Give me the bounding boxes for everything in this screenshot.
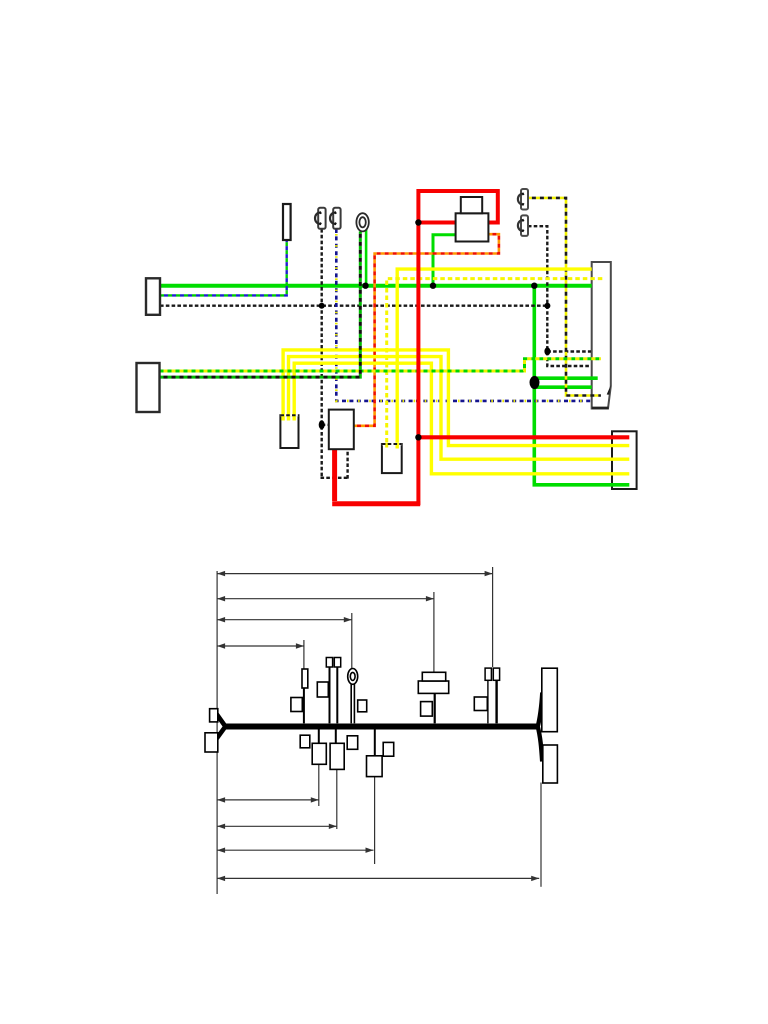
- wire: yellow solid to CN-R and flasher: [397, 269, 592, 444]
- connector CN-R (right main connector): [592, 262, 611, 409]
- dim ref line 1: [492, 567, 494, 667]
- wire: green/yellow dashed CN-L2 to CN-R: [160, 359, 601, 371]
- plug P2: [330, 208, 341, 229]
- wire: yellow dashed to CN-R and flasher: [387, 279, 603, 444]
- wire: green stub into CN-R lower: [534, 385, 592, 389]
- wire: green coil branch: [433, 235, 459, 286]
- horn (double circle): [356, 213, 368, 231]
- right plug rect 2: [493, 668, 499, 680]
- horn stem (double): [351, 683, 354, 723]
- ignition coil body: [456, 213, 489, 241]
- junction: black branch: [544, 347, 550, 355]
- harness backbone: [225, 724, 539, 730]
- lamp rect on harness: [302, 669, 308, 688]
- junction: right drop on green main: [531, 283, 537, 289]
- junction: black cross at P1 drop: [319, 303, 325, 309]
- wire: navy dashed from plug P2 to CN-R: [336, 229, 591, 401]
- wire: green stub into CN-R upper: [534, 376, 598, 380]
- junction: horn on green main: [362, 283, 368, 289]
- square G: [421, 702, 433, 717]
- dim ref line left: [216, 571, 218, 894]
- wire: yellow Y2 battery to CN-B: [289, 357, 630, 460]
- junction: big green node: [530, 376, 540, 389]
- stem: right plug thin: [487, 680, 489, 723]
- dim arrow 3: [217, 617, 352, 622]
- wire: black dashed from plug P4: [528, 226, 591, 366]
- right fork arm upper: [538, 693, 543, 728]
- coil stem: [434, 693, 436, 723]
- stem: plug pair 2: [336, 667, 338, 723]
- stem: lamp: [303, 688, 305, 723]
- right end connector upper: [542, 668, 558, 732]
- lamp T1: [283, 204, 291, 240]
- plug rect 1: [326, 658, 332, 668]
- wire: black dashed vertical from plug P1: [321, 229, 323, 479]
- right plug rect 1: [485, 668, 491, 680]
- wire: red bottom run to module B2: [332, 449, 420, 504]
- plug P3: [518, 189, 528, 210]
- dim ref line 7: [374, 777, 376, 864]
- junction: module B2 left: [319, 420, 325, 429]
- dim arrow 1: [217, 571, 493, 576]
- wire: yellow/black dashed from plug P3 to CN-R: [528, 198, 601, 396]
- left end connector lower: [205, 733, 218, 752]
- junction: coil branch on green main: [430, 283, 436, 289]
- plug P4: [518, 215, 528, 236]
- junction: red branch: [415, 434, 421, 440]
- flasher B3 (dashed top): [382, 443, 402, 473]
- dim arrow 5: [217, 797, 319, 802]
- wire: blue/green dashed from CN-L1 to lamp T1: [160, 240, 287, 295]
- stem: right plug thick: [495, 680, 497, 723]
- square B: [317, 682, 328, 697]
- dim ref line 4: [303, 640, 305, 669]
- stem: plug pair 1: [329, 667, 331, 723]
- junction: black main end: [544, 303, 550, 309]
- wire: green right drop to CN-B: [534, 286, 629, 485]
- plug rect 2: [334, 658, 340, 668]
- dim ref line 5: [318, 764, 320, 806]
- square C: [358, 700, 367, 712]
- coil body on harness: [418, 681, 448, 693]
- wire: black dashed stub to module B2: [322, 424, 329, 426]
- stem down 1: [318, 730, 320, 744]
- left fork arm lower: [215, 725, 227, 742]
- module B2 (CDI): [329, 410, 354, 450]
- stem down 2: [335, 730, 337, 744]
- plug P1: [315, 208, 326, 229]
- wire: red branch to CN-B: [418, 435, 629, 439]
- square A: [291, 698, 302, 712]
- connector CN-L1 (left upper): [146, 278, 160, 315]
- dim ref line 3: [351, 613, 353, 668]
- coil top on harness: [422, 672, 445, 681]
- left end connector upper: [210, 709, 218, 722]
- square F: [383, 742, 394, 756]
- wire: orange/red dashed CDI to module B2: [354, 234, 499, 426]
- down square 3: [367, 756, 383, 777]
- down square 1: [312, 743, 326, 764]
- dim arrow 7: [217, 848, 373, 853]
- wire: red main loop and trunk: [418, 191, 497, 505]
- battery B1 (dashed top): [280, 414, 298, 448]
- right end connector lower: [543, 745, 558, 783]
- square E: [347, 736, 358, 750]
- wire: black dashed branch into CN-R: [547, 350, 591, 352]
- left fork arm upper: [216, 713, 227, 729]
- wire: yellow Y3 battery to CN-B: [294, 363, 629, 474]
- wire: green/black dashed CN-L2 to horn: [160, 232, 361, 378]
- junction: red loop bottom: [415, 219, 421, 225]
- horn circle on harness: [348, 669, 358, 685]
- square D: [300, 735, 310, 748]
- wire: green horn stem: [365, 228, 368, 286]
- connector CN-B (right bottom connector): [612, 431, 637, 489]
- right fork arm lower: [538, 726, 543, 762]
- dim arrow 8: [217, 876, 539, 881]
- dim arrow 6: [217, 824, 337, 829]
- ignition coil top: [461, 197, 482, 213]
- down square 2: [330, 743, 344, 769]
- wire: black dashed main from CN-L1: [160, 305, 547, 307]
- wire: yellow Y1 battery to CN-B: [283, 350, 629, 446]
- dim ref line 6: [336, 769, 338, 829]
- stem down 3: [374, 730, 376, 756]
- wire: green main horizontal: [160, 284, 592, 288]
- dim arrow 2: [217, 596, 434, 601]
- dim arrow 4: [217, 643, 304, 648]
- dim ref line 8: [540, 783, 542, 887]
- dim ref line 2: [433, 592, 435, 672]
- connector CN-L2 (left lower): [137, 363, 160, 412]
- square I: [474, 697, 487, 711]
